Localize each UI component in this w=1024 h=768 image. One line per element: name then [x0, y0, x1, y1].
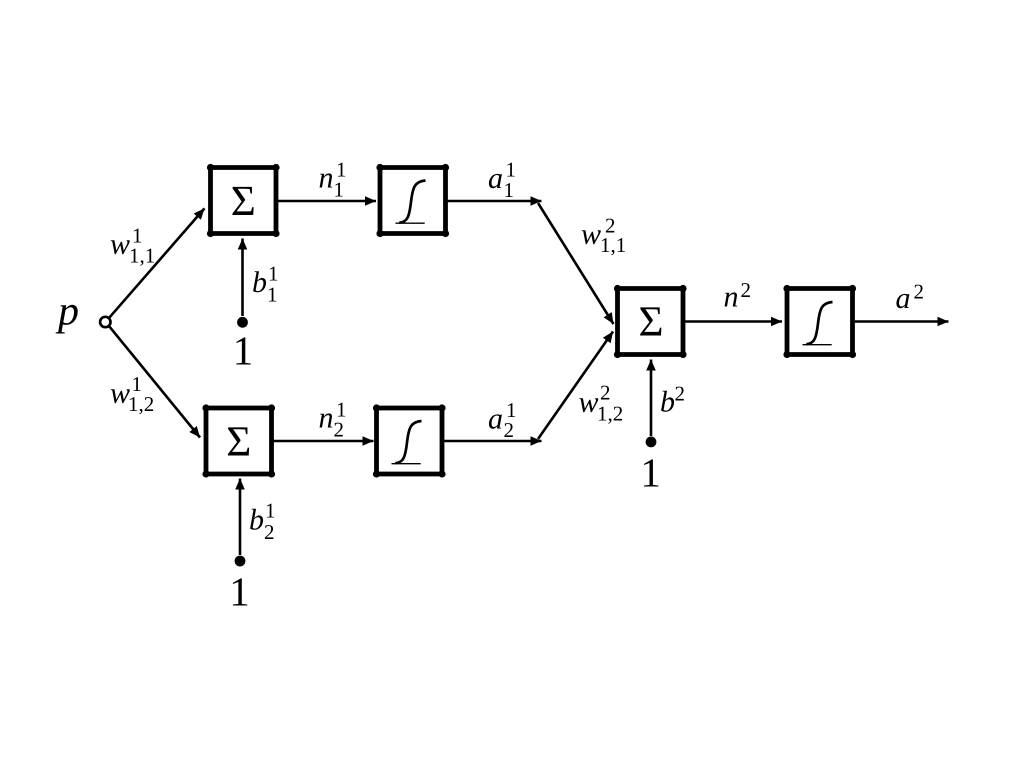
svg-text:1: 1: [504, 178, 515, 202]
svg-text:2: 2: [504, 418, 515, 442]
svg-text:b: b: [249, 504, 264, 537]
svg-text:a: a: [488, 402, 503, 435]
wire sum2 to sigmoid2 (n1_2 arrow): [274, 440, 374, 443]
label b1_1: [252, 261, 279, 306]
label n2: [724, 278, 752, 314]
transfer fn box F3 (layer 2): [783, 285, 856, 358]
svg-text:p: p: [55, 289, 79, 335]
label w1_1,1: [110, 224, 155, 268]
node p input circle: [100, 317, 110, 327]
label a1_1: [488, 158, 516, 202]
label w2_1,1: [581, 214, 626, 257]
svg-text:w: w: [579, 386, 599, 419]
svg-text:1: 1: [229, 569, 250, 615]
svg-text:Σ: Σ: [226, 419, 251, 466]
wire sigmoid1 out (a1_1 arrow): [448, 200, 542, 203]
label w2_1,2: [579, 381, 624, 426]
svg-text:2: 2: [334, 418, 345, 442]
svg-text:1,2: 1,2: [597, 401, 623, 425]
svg-text:b: b: [660, 386, 675, 419]
bias node 1 (layer2): [646, 437, 657, 448]
svg-text:1,1: 1,1: [129, 244, 155, 268]
svg-text:b: b: [252, 266, 267, 299]
label b2: [660, 381, 685, 418]
svg-text:n: n: [724, 281, 739, 314]
svg-text:w: w: [110, 228, 130, 261]
svg-text:w: w: [581, 218, 601, 251]
label a2: [896, 280, 925, 316]
svg-text:Σ: Σ: [638, 299, 663, 346]
svg-text:n: n: [319, 161, 334, 194]
svg-text:1: 1: [334, 178, 345, 202]
svg-text:2: 2: [675, 381, 686, 405]
svg-text:a: a: [488, 162, 503, 195]
svg-text:1,1: 1,1: [600, 233, 626, 257]
wire p to sum2 (w1_12 arrow): [109, 326, 200, 438]
wire a1_1 to sum3 (w2_11 arrow): [538, 203, 614, 324]
label n1_2: [319, 398, 347, 442]
svg-text:1: 1: [267, 283, 278, 307]
wire p to sum1 (w1_11 arrow): [109, 208, 205, 318]
summer box U3 (layer 2): [614, 285, 687, 358]
label a1_2: [488, 398, 517, 442]
svg-text:1,2: 1,2: [128, 392, 154, 416]
svg-text:1: 1: [233, 328, 254, 374]
label w1_1,2: [110, 372, 154, 416]
wire sigmoid2 out (a1_2 arrow): [444, 440, 542, 443]
svg-text:2: 2: [264, 520, 275, 544]
wire sum3 to sigmoid3 (n2 arrow): [685, 320, 782, 323]
svg-text:2: 2: [914, 280, 925, 304]
svg-text:2: 2: [741, 278, 752, 302]
svg-text:1: 1: [640, 450, 661, 496]
wire sigmoid3 out (a2 arrow): [855, 320, 949, 323]
wire bias b1_2: [239, 479, 242, 556]
label n1_1: [319, 158, 347, 202]
label b1_2: [249, 499, 276, 544]
wire bias b2: [650, 360, 653, 437]
transfer fn box F1: [376, 164, 449, 237]
svg-text:Σ: Σ: [231, 178, 256, 225]
summer box U1: [207, 164, 280, 237]
svg-text:n: n: [319, 401, 334, 434]
wire a1_2 to sum3 (w2_12 arrow): [538, 332, 613, 440]
wire sum1 to sigmoid1 (n1_1 arrow): [277, 200, 376, 203]
bias node 1 (bottom): [235, 556, 246, 567]
svg-text:a: a: [896, 282, 911, 315]
svg-text:w: w: [110, 377, 130, 410]
bias node 1 (top): [237, 317, 248, 328]
wire bias b1_1: [241, 239, 244, 317]
transfer fn box F2: [373, 404, 446, 477]
summer box U2: [202, 404, 275, 477]
